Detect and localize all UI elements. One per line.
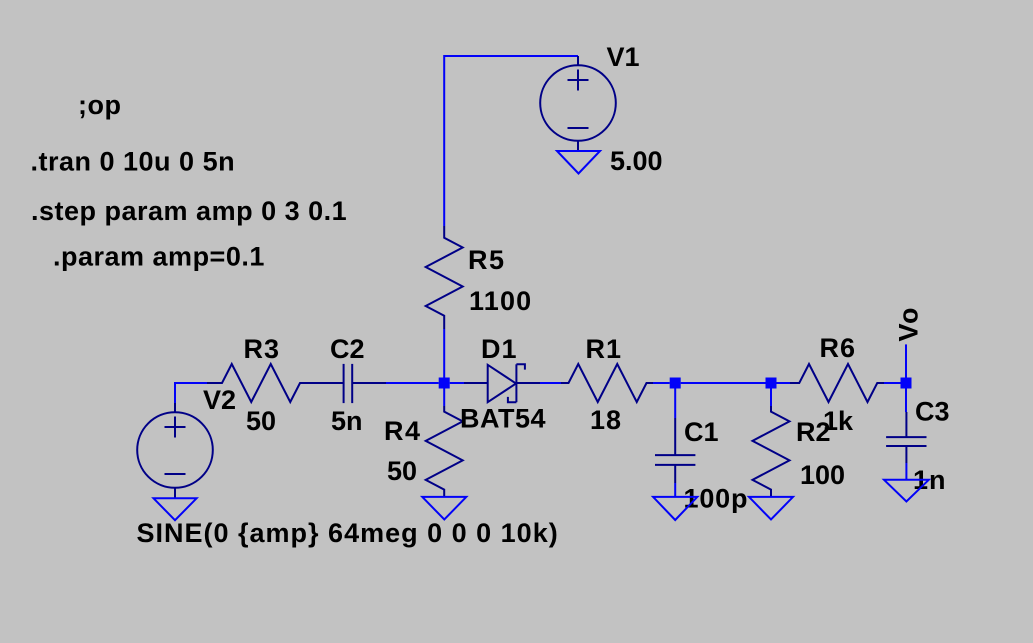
- svg-text:.tran 0 10u 0 5n: .tran 0 10u 0 5n: [31, 147, 236, 177]
- ground for R4: [422, 497, 466, 520]
- capacitor C1: [655, 418, 695, 483]
- ground for V2: [154, 498, 197, 520]
- svg-text:C1: C1: [684, 417, 719, 447]
- ground for C1: [653, 497, 697, 520]
- ground for V1: [557, 151, 600, 174]
- voltage source V1: [540, 56, 616, 151]
- wire R6 to junction D: [884, 382, 901, 384]
- wire C2 to junction A: [386, 382, 439, 384]
- svg-text:V2: V2: [203, 385, 236, 415]
- capacitor C3: [886, 412, 926, 463]
- junction A: [439, 378, 450, 389]
- svg-text:C2: C2: [330, 334, 365, 364]
- svg-text:D1: D1: [481, 334, 518, 364]
- svg-text:50: 50: [387, 456, 417, 486]
- svg-text:5n: 5n: [331, 406, 363, 436]
- resistor R2: [753, 406, 790, 497]
- svg-text:5.00: 5.00: [610, 146, 663, 176]
- capacitor C2: [320, 364, 386, 403]
- svg-text:18: 18: [590, 405, 622, 435]
- wire V2 to R3: [175, 383, 207, 403]
- wire C3 to ground: [905, 463, 907, 480]
- wire junction D down to C3: [905, 389, 907, 413]
- svg-text:R6: R6: [820, 333, 857, 363]
- wire junction C down to R2: [770, 389, 772, 407]
- resistor R6: [790, 364, 884, 402]
- wire C1 to ground: [674, 483, 676, 497]
- svg-text:V1: V1: [607, 42, 640, 72]
- svg-text:50: 50: [246, 406, 276, 436]
- svg-text:1100: 1100: [469, 286, 532, 316]
- svg-text:R4: R4: [384, 416, 422, 446]
- wire node Vo: [905, 344, 907, 377]
- junction B: [670, 378, 681, 389]
- svg-text:100: 100: [800, 460, 845, 490]
- wire junction A to D1: [450, 382, 464, 384]
- junction D: [901, 378, 912, 389]
- svg-text:SINE(0 {amp} 64meg 0 0 0 10k): SINE(0 {amp} 64meg 0 0 0 10k): [137, 518, 559, 548]
- svg-text:Vo: Vo: [894, 306, 924, 342]
- resistor R4: [426, 406, 463, 497]
- wire R5 to junction: [443, 329, 445, 378]
- svg-text:R5: R5: [468, 245, 506, 275]
- wire R1 to junction B: [653, 382, 670, 384]
- svg-text:R3: R3: [244, 334, 281, 364]
- svg-text:.param amp=0.1: .param amp=0.1: [53, 242, 265, 272]
- wire D1 to R1: [540, 382, 561, 384]
- svg-text:.step param amp 0 3 0.1: .step param amp 0 3 0.1: [31, 196, 347, 226]
- voltage source V2: [137, 403, 213, 498]
- wire junction A down to R4: [443, 389, 445, 407]
- svg-text:100p: 100p: [684, 484, 749, 514]
- ground for C3: [884, 480, 929, 502]
- wire junction C to R6: [777, 382, 791, 384]
- resistor R3: [207, 364, 320, 402]
- wire top horizontal and left vertical: [444, 56, 578, 226]
- svg-text:1k: 1k: [823, 406, 854, 436]
- svg-text:;op: ;op: [78, 90, 121, 120]
- wire junction B down to C1: [674, 389, 676, 419]
- junction C: [766, 378, 777, 389]
- resistor R1: [561, 364, 653, 402]
- wire junction B to junction C: [681, 382, 766, 384]
- resistor R5: [426, 226, 463, 329]
- svg-text:R1: R1: [586, 334, 623, 364]
- svg-text:C3: C3: [915, 397, 950, 427]
- ground for R2: [749, 497, 793, 520]
- diode D1: [464, 364, 540, 402]
- svg-text:BAT54: BAT54: [460, 404, 546, 434]
